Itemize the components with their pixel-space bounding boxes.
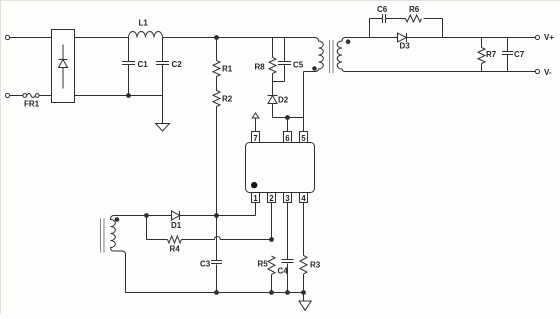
svg-text:FR1: FR1: [24, 100, 40, 109]
svg-text:R5: R5: [258, 260, 269, 269]
resistor R3: [300, 203, 307, 293]
wire: [273, 117, 304, 119]
wire: [442, 19, 444, 38]
inductor L1: [129, 32, 163, 38]
wire: [114, 215, 172, 217]
wire: [303, 118, 305, 132]
resistor R2: [213, 91, 220, 107]
wire: [369, 19, 371, 38]
resistor R4: [168, 236, 182, 243]
wire: [370, 18, 383, 20]
pin box 6: [284, 132, 292, 143]
resistor R1: [213, 38, 220, 77]
resistor R7: [478, 38, 485, 72]
junction dot: [127, 94, 131, 98]
svg-text:V-: V-: [544, 68, 552, 77]
transformer T2 core: [101, 219, 105, 253]
svg-text:C5: C5: [293, 61, 304, 70]
svg-text:R2: R2: [222, 95, 233, 104]
wire: [303, 72, 305, 118]
junction dot: [286, 116, 290, 120]
wire: [163, 37, 316, 39]
junction dot: [270, 238, 274, 242]
pin box 1: [252, 193, 260, 203]
transformer T1 secondary: [337, 38, 345, 72]
transformer T2 dot: [115, 217, 120, 222]
wire: [271, 203, 273, 240]
wire: [216, 77, 218, 91]
svg-text:C1: C1: [138, 60, 149, 69]
svg-text:3: 3: [285, 194, 290, 203]
junction dot: [215, 291, 219, 295]
node arrow (pin 7): [252, 113, 259, 132]
resistor R6: [406, 15, 422, 22]
wire: [424, 18, 443, 20]
svg-text:5: 5: [301, 134, 306, 143]
capacitor C3: [211, 216, 222, 293]
wire: [216, 107, 218, 216]
svg-text:D1: D1: [171, 221, 182, 230]
diode D1: [172, 211, 180, 220]
pin box 7: [252, 132, 260, 143]
junction dot: [286, 291, 290, 295]
resistor R5: [268, 256, 275, 293]
wire: [346, 37, 399, 39]
wire: [407, 37, 536, 39]
wire: [39, 95, 51, 97]
svg-text:C4: C4: [278, 267, 289, 276]
svg-text:L1: L1: [139, 19, 149, 28]
svg-text:R3: R3: [310, 261, 321, 270]
wire: [273, 81, 285, 83]
wire: [386, 18, 406, 20]
terminal V-: [535, 69, 539, 73]
wire: [10, 37, 52, 39]
IC U1 pin1 mark: [251, 182, 257, 188]
svg-text:R4: R4: [170, 245, 181, 254]
svg-text:R8: R8: [255, 63, 266, 72]
pin box 5: [300, 132, 308, 143]
svg-text:D2: D2: [278, 96, 289, 105]
resistor R8: [269, 38, 276, 82]
ground: [156, 124, 170, 132]
fuse FR1: [23, 94, 39, 98]
junction dot: [215, 214, 219, 218]
wire: [346, 71, 536, 73]
svg-text:V+: V+: [544, 33, 554, 42]
ground: [299, 301, 311, 310]
wire: [287, 118, 289, 132]
junction dot: [270, 291, 274, 295]
capacitor C4: [282, 203, 294, 293]
svg-text:4: 4: [301, 194, 306, 203]
wire: [10, 95, 23, 97]
junction dot: [215, 36, 219, 40]
diode D3: [398, 33, 407, 42]
wire: [75, 95, 163, 97]
svg-text:1: 1: [253, 194, 258, 203]
svg-text:C6: C6: [377, 5, 388, 14]
svg-text:2: 2: [269, 194, 274, 203]
svg-text:C7: C7: [514, 50, 525, 59]
svg-text:6: 6: [285, 134, 290, 143]
wire with hop: [182, 237, 272, 240]
junction dot: [145, 214, 149, 218]
pin box 3: [284, 193, 292, 203]
wire: [303, 293, 305, 302]
capacitor C5: [278, 38, 291, 82]
wire: [147, 239, 168, 241]
svg-text:R1: R1: [222, 65, 233, 74]
svg-text:D3: D3: [400, 42, 411, 51]
svg-text:C2: C2: [172, 60, 183, 69]
pin box 4: [300, 193, 308, 203]
bridge rectifier: [52, 30, 75, 103]
wire: [126, 292, 304, 294]
transformer T1 secondary dot: [346, 39, 351, 44]
capacitor C7: [502, 38, 513, 72]
transformer T1 core: [330, 40, 334, 73]
wire: [75, 37, 129, 39]
svg-text:C3: C3: [200, 260, 211, 269]
border frame: [0, 0, 2, 314]
terminal V+: [535, 35, 539, 39]
transformer T1 primary: [304, 38, 324, 72]
zener diode D2: [268, 82, 278, 118]
transformer T2 winding: [111, 216, 126, 293]
wire: [255, 203, 257, 216]
svg-text:R7: R7: [486, 50, 497, 59]
transformer T1 primary dot: [312, 66, 317, 71]
capacitor C2: [156, 38, 169, 124]
input terminal top: [5, 35, 9, 39]
svg-text:7: 7: [253, 134, 258, 143]
IC U1 body: [246, 143, 315, 193]
pin box 2: [268, 193, 276, 203]
input terminal bottom: [5, 93, 9, 97]
wire: [180, 215, 256, 217]
wire: [146, 216, 148, 240]
capacitor C6: [383, 14, 386, 23]
junction dot: [302, 291, 306, 295]
svg-text:R6: R6: [409, 5, 420, 14]
capacitor C1: [122, 38, 135, 96]
